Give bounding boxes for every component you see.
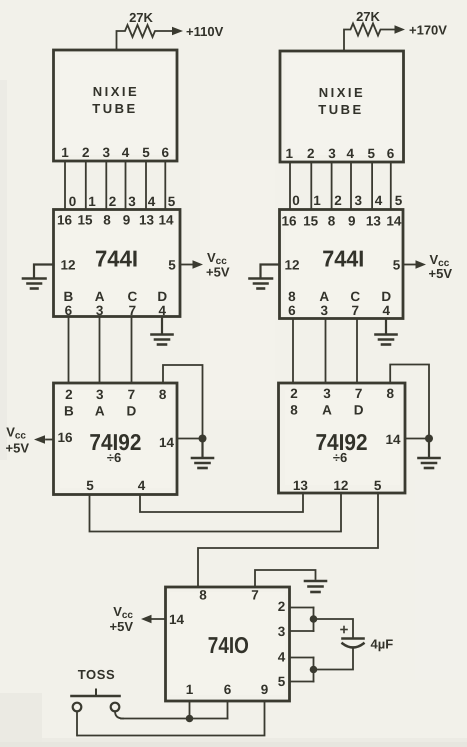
wire switch to pins 1,6 — [121, 718, 228, 720]
wire U3 pin8 jog to pin14 node — [163, 365, 203, 439]
wire U2 pin6 to U4 pin2 — [292, 319, 294, 384]
svg-text:15: 15 — [77, 213, 93, 228]
svg-text:5: 5 — [393, 258, 401, 273]
wire U5 pin2 — [290, 607, 314, 609]
svg-text:3: 3 — [355, 193, 363, 208]
ground at U4 pin14 node — [419, 440, 440, 468]
switch S1 TOSS — [72, 690, 124, 736]
svg-text:NIXIE: NIXIE — [319, 85, 365, 100]
svg-text:6: 6 — [65, 303, 73, 318]
IC U2 7441 — [280, 210, 404, 319]
IC U3 74192 — [54, 383, 178, 495]
svg-text:74IO: 74IO — [208, 632, 249, 658]
svg-text:3: 3 — [128, 194, 136, 209]
svg-text:5: 5 — [86, 478, 94, 493]
ground at U1 pin 12 — [23, 265, 54, 289]
svg-text:16: 16 — [57, 213, 73, 228]
svg-text:1: 1 — [286, 146, 294, 161]
svg-text:13: 13 — [139, 213, 155, 228]
svg-text:6: 6 — [224, 682, 232, 697]
svg-text:D: D — [127, 404, 137, 419]
svg-text:2: 2 — [82, 145, 90, 160]
svg-text:8: 8 — [288, 289, 296, 304]
svg-text:9: 9 — [261, 682, 269, 697]
svg-text:8: 8 — [328, 214, 336, 229]
svg-text:16: 16 — [57, 430, 73, 445]
svg-text:1: 1 — [88, 194, 96, 209]
nixie tube V2 — [280, 51, 404, 162]
wire V1 pin2 to U1 — [85, 161, 87, 210]
capacitor C1 4uF — [341, 627, 364, 648]
junction node pins 2-3 — [310, 615, 318, 623]
svg-text:4: 4 — [347, 146, 355, 161]
wire U4 pin14 — [405, 438, 429, 440]
IC U1 7441 — [54, 210, 181, 317]
svg-text:1: 1 — [186, 682, 194, 697]
svg-text:TUBE: TUBE — [92, 101, 137, 116]
junction node pins 4-5 — [310, 666, 318, 674]
svg-text:TUBE: TUBE — [318, 102, 363, 117]
svg-text:744I: 744I — [322, 246, 364, 272]
svg-text:3: 3 — [96, 303, 104, 318]
svg-text:+5V: +5V — [110, 619, 134, 634]
svg-text:7: 7 — [251, 588, 259, 603]
wire U2 pin7 to U4 pin7 — [356, 319, 358, 384]
wire V1 pin1 to U1 — [64, 161, 66, 210]
wire V2 pin1 to U2 — [289, 162, 291, 210]
wire U3 pin14 — [177, 438, 203, 440]
svg-text:+5V: +5V — [206, 265, 230, 280]
IC U5 7410 — [166, 587, 290, 701]
wire V2 pin6 to U2 — [390, 162, 392, 210]
ground at U2 pin 12 — [250, 265, 280, 289]
svg-text:A: A — [322, 403, 332, 418]
svg-text:+170V: +170V — [409, 23, 447, 38]
svg-text:4: 4 — [278, 650, 286, 665]
wire V2 pin4 to U2 — [350, 162, 352, 210]
svg-text:5: 5 — [142, 145, 150, 160]
wire capacitor bottom to node — [314, 648, 354, 670]
resistor R1 27K — [117, 25, 173, 50]
svg-text:8: 8 — [199, 588, 207, 603]
svg-text:2: 2 — [290, 386, 298, 401]
ground at U3 pin14 node — [192, 440, 213, 468]
svg-text:14: 14 — [158, 213, 174, 228]
svg-text:÷6: ÷6 — [107, 450, 121, 465]
svg-text:B: B — [64, 404, 74, 419]
Vcc +5V arrow at U5 pin 14 — [141, 615, 166, 623]
svg-text:9: 9 — [348, 214, 356, 229]
wire U5 pin1 — [189, 701, 191, 719]
wire V2 pin3 to U2 — [331, 162, 333, 210]
resistor R2 27K — [344, 24, 395, 52]
wire U4 pin5 to U5 pin8 — [198, 493, 378, 587]
svg-text:A: A — [95, 404, 105, 419]
svg-text:5: 5 — [395, 193, 403, 208]
svg-text:8: 8 — [386, 386, 394, 401]
svg-text:1: 1 — [313, 193, 321, 208]
wire U5 pin9 to switch — [78, 701, 265, 736]
svg-text:B: B — [64, 289, 74, 304]
svg-text:2: 2 — [307, 146, 315, 161]
svg-text:3: 3 — [103, 145, 111, 160]
Vcc +5V arrow at U2 pin 5 — [403, 260, 426, 268]
svg-text:NIXIE: NIXIE — [93, 84, 139, 99]
power +170V arrow — [395, 25, 406, 33]
svg-text:4: 4 — [158, 303, 166, 318]
wire V2 pin5 to U2 — [371, 162, 373, 210]
Vcc +5V arrow at U3 pin 16 — [34, 435, 54, 443]
Vcc +5V arrow at U1 pin 5 — [180, 260, 203, 268]
svg-text:744I: 744I — [95, 246, 138, 272]
svg-text:8: 8 — [103, 213, 111, 228]
svg-text:2: 2 — [109, 194, 117, 209]
wire V1 pin4 to U1 — [125, 161, 127, 210]
svg-text:14: 14 — [385, 432, 401, 447]
wire V1 pin6 to U1 — [164, 161, 166, 210]
junction node at pin1 — [186, 715, 194, 723]
svg-text:+110V: +110V — [186, 24, 224, 39]
svg-text:9: 9 — [123, 213, 131, 228]
wire U1 pin3 to U3 pin3 — [99, 317, 101, 384]
svg-text:6: 6 — [288, 303, 296, 318]
svg-text:13: 13 — [293, 478, 309, 493]
wire U1 pin6 to U3 pin2 — [68, 317, 70, 384]
svg-text:4: 4 — [122, 145, 130, 160]
junction node at U3 pin14 — [199, 435, 207, 443]
wire U1 pin7 to U3 pin7 — [131, 317, 133, 384]
svg-text:5: 5 — [367, 146, 375, 161]
svg-text:4: 4 — [138, 478, 146, 493]
wire U5 pin5 — [290, 681, 314, 683]
ground at U1 pin D/4 — [152, 317, 173, 345]
svg-text:4µF: 4µF — [371, 637, 394, 652]
svg-text:5: 5 — [278, 674, 286, 689]
svg-text:5: 5 — [168, 258, 176, 273]
power +110V arrow — [172, 27, 183, 35]
wire U5 pin6 — [227, 701, 229, 719]
wire V1 pin3 to U1 — [105, 161, 107, 210]
svg-text:A: A — [319, 289, 329, 304]
svg-text:TOSS: TOSS — [78, 667, 116, 682]
wire node to capacitor top — [314, 619, 354, 637]
wire U5 pin7 to ground — [255, 570, 316, 587]
svg-text:2: 2 — [65, 387, 73, 402]
svg-text:15: 15 — [303, 214, 319, 229]
wire V2 pin2 to U2 — [310, 162, 312, 210]
svg-text:14: 14 — [386, 214, 402, 229]
svg-text:27K: 27K — [356, 9, 380, 24]
svg-text:7: 7 — [352, 303, 360, 318]
wire U2 pin3 to U4 pin3 — [325, 319, 327, 384]
svg-text:0: 0 — [292, 193, 300, 208]
svg-text:A: A — [95, 289, 105, 304]
svg-text:C: C — [350, 289, 360, 304]
svg-text:7: 7 — [129, 303, 137, 318]
svg-text:+5V: +5V — [429, 266, 453, 281]
wire U4 pin8 jog to pin14 node — [390, 365, 429, 439]
svg-text:D: D — [381, 289, 391, 304]
svg-text:16: 16 — [281, 214, 297, 229]
svg-text:7: 7 — [128, 387, 136, 402]
svg-text:13: 13 — [366, 214, 382, 229]
ground at U2 pin D/4 — [376, 319, 397, 345]
wire U5 pin3 — [290, 630, 314, 632]
svg-text:7: 7 — [355, 386, 363, 401]
nixie tube V1 — [54, 50, 178, 161]
IC U4 74192 — [279, 383, 406, 493]
ground at U5 pin7 — [305, 581, 326, 592]
wire joining pins 2,3 — [313, 608, 315, 632]
wire U5 pin4 — [290, 657, 314, 659]
svg-text:12: 12 — [284, 258, 299, 273]
svg-text:12: 12 — [333, 478, 348, 493]
svg-text:5: 5 — [168, 194, 176, 209]
wire U3 pin4 to U4 pin13 — [140, 493, 303, 512]
svg-text:4: 4 — [383, 303, 391, 318]
svg-text:4: 4 — [148, 194, 156, 209]
svg-text:3: 3 — [278, 624, 286, 639]
svg-text:27K: 27K — [129, 10, 153, 25]
svg-text:8: 8 — [159, 387, 167, 402]
svg-text:3: 3 — [321, 303, 329, 318]
svg-text:8: 8 — [290, 403, 298, 418]
svg-text:5: 5 — [374, 478, 382, 493]
svg-text:3: 3 — [323, 386, 331, 401]
svg-text:4: 4 — [375, 193, 383, 208]
svg-text:6: 6 — [162, 145, 170, 160]
svg-text:C: C — [128, 289, 138, 304]
junction node at U4 pin14 — [425, 435, 433, 443]
wire joining pins 4,5 — [313, 658, 315, 682]
svg-text:6: 6 — [387, 146, 395, 161]
svg-text:3: 3 — [328, 146, 336, 161]
svg-text:D: D — [157, 289, 167, 304]
wire U3 pin5 to U4 pin12 — [90, 493, 342, 532]
svg-text:14: 14 — [159, 435, 175, 450]
svg-text:1: 1 — [61, 145, 69, 160]
svg-text:12: 12 — [60, 258, 75, 273]
svg-text:2: 2 — [278, 599, 286, 614]
svg-text:+5V: +5V — [6, 441, 30, 456]
svg-text:3: 3 — [96, 387, 104, 402]
svg-text:2: 2 — [334, 193, 342, 208]
svg-text:14: 14 — [169, 612, 185, 627]
svg-text:0: 0 — [69, 194, 77, 209]
wire V1 pin5 to U1 — [145, 161, 147, 210]
svg-text:÷6: ÷6 — [333, 450, 347, 465]
svg-text:D: D — [354, 403, 364, 418]
